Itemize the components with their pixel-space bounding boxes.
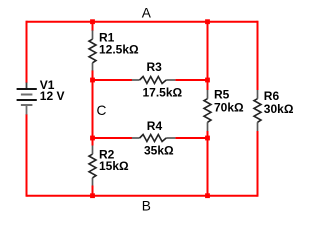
wire bottom bus B (27, 195, 258, 197)
wire R1 bottom to node R3 (92, 70, 94, 80)
svg-text:C: C (97, 103, 107, 118)
battery V1 (17, 83, 37, 115)
wire R6 branch upper (257, 21, 259, 90)
svg-text:R6: R6 (264, 89, 280, 103)
wire left lower (from V1 -) (26, 114, 28, 197)
svg-text:17.5kΩ: 17.5kΩ (143, 86, 183, 100)
resistor R6 (254, 90, 261, 131)
wire R4 left (93, 137, 133, 139)
wire R2 top stub (92, 138, 94, 146)
wire R6 branch lower (257, 131, 259, 197)
resistor R3 (132, 77, 176, 84)
junction node R3 right (205, 78, 210, 83)
svg-text:35kΩ: 35kΩ (144, 144, 174, 158)
svg-text:70kΩ: 70kΩ (214, 101, 244, 115)
junction node R3 left (90, 78, 95, 83)
wire R5 branch lower (207, 131, 209, 196)
wire R5 branch upper (207, 22, 209, 90)
junction top-left at R1 branch (90, 19, 95, 24)
svg-text:30kΩ: 30kΩ (264, 102, 294, 116)
svg-text:B: B (142, 199, 151, 214)
wire left upper (to V1 +) (26, 21, 28, 83)
wire R1 top stub (92, 22, 94, 31)
wire node C segment (92, 80, 94, 138)
svg-text:R5: R5 (214, 88, 230, 102)
svg-text:12 V: 12 V (40, 89, 65, 103)
svg-text:A: A (142, 5, 152, 20)
resistor R5 (204, 90, 211, 131)
resistor R1 (89, 30, 96, 70)
svg-text:R3: R3 (147, 60, 163, 74)
svg-text:12.5kΩ: 12.5kΩ (99, 43, 139, 57)
svg-text:R4: R4 (147, 119, 163, 133)
junction top at R5 branch (205, 19, 210, 24)
wire R3 left (93, 79, 133, 81)
wire R4 right (175, 137, 207, 139)
wire R3 right (175, 79, 207, 81)
resistor R4 (132, 135, 176, 142)
wire top bus A (27, 21, 258, 23)
junction node R4 right (205, 136, 210, 141)
junction node R4 left (90, 136, 95, 141)
junction bottom at R2 branch (90, 193, 95, 198)
wire R2 bottom stub (92, 186, 94, 196)
junction bottom at R5 branch (205, 193, 210, 198)
resistor R2 (89, 146, 96, 186)
svg-text:15kΩ: 15kΩ (99, 159, 129, 173)
